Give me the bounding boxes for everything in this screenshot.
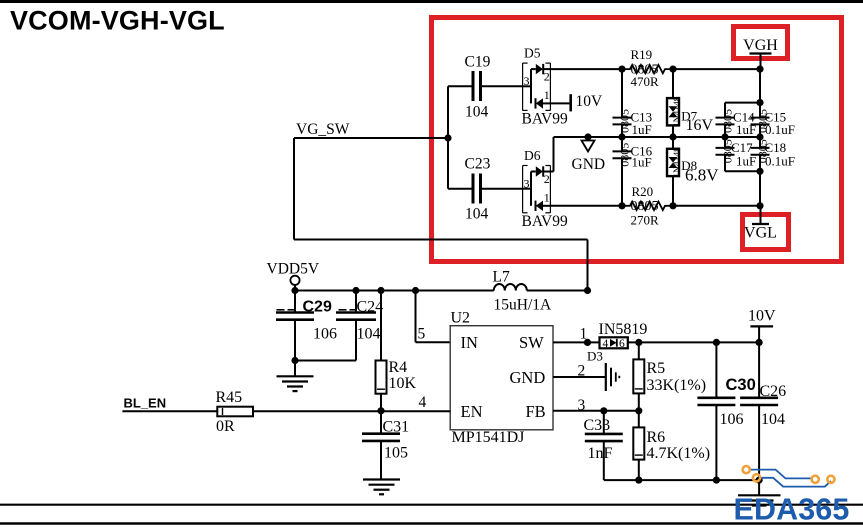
svg-text:4: 4	[603, 338, 609, 350]
svg-text:C23: C23	[465, 156, 491, 173]
svg-text:33K(1%): 33K(1%)	[647, 377, 707, 394]
svg-text:VG_SW: VG_SW	[296, 121, 350, 138]
svg-text:VDD5V: VDD5V	[267, 261, 320, 278]
svg-text:D3: D3	[587, 348, 603, 363]
svg-text:2: 2	[544, 172, 550, 186]
svg-text:106: 106	[313, 325, 337, 342]
svg-text:105: 105	[384, 444, 408, 461]
svg-text:R20: R20	[632, 184, 654, 199]
svg-text:R4: R4	[389, 359, 408, 376]
svg-text:VCOM-VGH-VGL: VCOM-VGH-VGL	[10, 6, 225, 36]
svg-text:104: 104	[465, 104, 489, 121]
svg-text:VGH: VGH	[743, 37, 778, 54]
svg-text:4.7K(1%): 4.7K(1%)	[647, 445, 711, 462]
svg-text:R6: R6	[647, 429, 666, 446]
svg-text:C19: C19	[465, 54, 491, 71]
svg-text:1uF: 1uF	[736, 122, 756, 137]
svg-text:0.1uF: 0.1uF	[765, 154, 795, 169]
svg-text:U2: U2	[451, 309, 471, 326]
svg-text:2: 2	[544, 70, 550, 84]
svg-text:0R: 0R	[216, 418, 235, 435]
svg-text:104: 104	[465, 206, 489, 223]
svg-text:3: 3	[578, 397, 586, 414]
svg-text:D5: D5	[524, 46, 541, 61]
svg-text:C24: C24	[357, 299, 384, 316]
svg-text:IN5819: IN5819	[599, 321, 648, 338]
svg-text:1: 1	[544, 190, 550, 204]
svg-text:VGL: VGL	[744, 224, 777, 241]
svg-text:C29: C29	[303, 299, 332, 316]
svg-text:R19: R19	[631, 47, 653, 62]
svg-text:0805: 0805	[618, 109, 632, 133]
svg-text:SW: SW	[519, 333, 544, 352]
svg-text:R5: R5	[647, 360, 666, 377]
svg-text:1uF: 1uF	[736, 154, 756, 169]
svg-text:2: 2	[578, 362, 586, 379]
svg-text:104: 104	[761, 411, 785, 428]
svg-text:BAV99: BAV99	[522, 111, 568, 128]
svg-text:1uF: 1uF	[632, 154, 652, 169]
svg-text:16V: 16V	[686, 117, 714, 134]
svg-text:10V: 10V	[748, 308, 776, 325]
svg-text:D6: D6	[524, 148, 541, 163]
svg-text:BAV99: BAV99	[522, 213, 568, 230]
svg-text:C26: C26	[760, 383, 787, 400]
svg-text:FB: FB	[526, 402, 546, 421]
svg-text:15uH/1A: 15uH/1A	[494, 297, 553, 314]
svg-text:1uF: 1uF	[632, 122, 652, 137]
svg-text:270R: 270R	[631, 212, 660, 227]
svg-text:GND: GND	[510, 368, 546, 387]
svg-text:0805: 0805	[618, 143, 632, 167]
svg-text:EN: EN	[461, 402, 483, 421]
svg-text:6.8V: 6.8V	[685, 166, 719, 185]
svg-text:4: 4	[419, 394, 427, 411]
svg-text:GND: GND	[572, 156, 606, 173]
svg-text:1nF: 1nF	[588, 445, 613, 462]
svg-text:6: 6	[619, 338, 625, 350]
svg-text:1: 1	[544, 88, 550, 102]
svg-text:R45: R45	[216, 389, 243, 406]
svg-text:BL_EN: BL_EN	[124, 396, 167, 411]
svg-text:C30: C30	[726, 376, 756, 394]
svg-text:106: 106	[720, 411, 744, 428]
svg-text:104: 104	[357, 325, 381, 342]
svg-text:C33: C33	[584, 417, 611, 434]
svg-text:0.1uF: 0.1uF	[765, 122, 795, 137]
svg-text:5: 5	[418, 326, 426, 343]
svg-text:C31: C31	[383, 418, 410, 435]
svg-text:EDA365: EDA365	[734, 493, 850, 527]
svg-text:10V: 10V	[576, 93, 604, 110]
svg-text:1: 1	[580, 325, 588, 342]
svg-text:470R: 470R	[631, 74, 660, 89]
svg-text:MP1541DJ: MP1541DJ	[452, 429, 525, 446]
svg-text:3: 3	[524, 177, 530, 191]
svg-text:3: 3	[524, 74, 530, 88]
svg-text:IN: IN	[461, 333, 478, 352]
svg-text:L7: L7	[493, 269, 510, 286]
svg-text:10K: 10K	[389, 375, 417, 392]
